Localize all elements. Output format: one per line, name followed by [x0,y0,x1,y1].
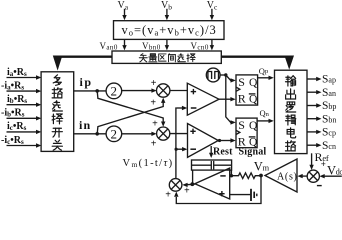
summer R ramp (circle-X) [169,179,182,192]
svg-text:Qp: Qp [259,66,268,76]
wire feedback right vertical [230,170,232,176]
wire Van0 arrow [122,39,126,50]
svg-text:Vcn0: Vcn0 [191,41,209,52]
block U1 neutral-voltage formula box vo=(va+vb+vc)/3 [114,21,225,40]
input Ref label [315,150,329,164]
svg-text:2: 2 [111,84,118,99]
svg-text:Va: Va [118,0,129,11]
wire FF2 Q to output logic [257,119,274,123]
wire ramp riser to comparators [175,108,177,179]
gain block 2x (upper) [106,83,122,99]
input Vb arrow [165,9,169,20]
output Scn [307,140,336,152]
wire -ic·Rs arrow [7,143,42,147]
block U4 output logic box (输出逻辑电路) [275,70,308,153]
summer DC plus sign [321,159,326,169]
svg-text:Van0: Van0 [100,41,118,52]
wire summer N to CMP2 plus input [170,133,188,135]
label Rest Signal [213,147,266,158]
wire summer DC to A(s) [297,174,307,178]
svg-text:Vbn0: Vbn0 [142,41,161,52]
node Qn label [260,108,270,118]
input Va label [118,0,129,11]
input Va arrow [122,9,126,20]
label Vm(1-t/tau) [123,158,174,169]
wire Vcn0 arrow [210,39,214,50]
node Vm junction [259,174,263,178]
output San [307,87,336,99]
wire Ref arrow [309,153,313,170]
node in label [79,118,91,132]
wire ip [74,90,106,92]
wire 2x to summer N [122,132,157,136]
node Vm label [254,159,270,173]
input -ic·Rs label [1,135,24,146]
svg-text:2: 2 [111,127,118,142]
input Vdc label [327,163,342,177]
gain block 2x (lower) [106,126,122,142]
output Sap [307,74,336,86]
node op-amp output junction [190,182,194,186]
node Vbn0 label [142,41,161,52]
wire -ib·Rs arrow [7,116,42,120]
output Scp [307,127,336,139]
wire ramp to CMP2 minus input [176,147,187,151]
output Sbp [307,100,336,112]
svg-text:Q: Q [249,137,258,149]
svg-text:vo=(va+vb+vc)/3: vo=(va+vb+vc)/3 [122,23,217,37]
wire thick bus to output logic [221,56,294,70]
summer N plus sign (vertical input) [152,119,158,130]
svg-text:R: R [238,135,246,149]
oscillator clock symbol [206,68,220,82]
svg-text:S: S [238,75,245,89]
input Vb label [161,0,172,11]
svg-text:+: + [165,190,171,201]
svg-text:Q: Q [249,120,258,132]
wire in [74,133,106,135]
input ia·Rs label [7,67,27,78]
node clock junction [224,73,227,76]
input Vc arrow [210,9,214,20]
svg-text:-ib•Rs: -ib•Rs [1,108,25,119]
svg-text:+: + [151,78,157,89]
flip-flop FF2 (lower SR) [236,118,258,149]
node in junction [95,132,99,136]
svg-text:San: San [322,87,336,99]
input Vc label [207,0,218,11]
svg-text:Sap: Sap [322,74,336,86]
wire op-amp output to summer R [182,183,195,187]
node riser junction for CMP2 minus [175,148,178,151]
node CMP2 output junction [218,139,221,142]
wire Vbn0 arrow [165,39,169,50]
svg-text:ip: ip [80,75,93,89]
svg-text:Q: Q [249,94,258,106]
node Vcn0 label [191,41,209,52]
input ib·Rs label [7,94,27,105]
svg-text:R: R [238,92,246,106]
summer N (circle-X) [157,127,170,140]
svg-text:Vm(1-t/τ): Vm(1-t/τ) [123,158,174,169]
resistor R1 [231,173,261,179]
wire ic·Rs arrow [7,130,42,134]
block U3 multiplexer switch box (多路选择开关) [41,72,74,152]
wire thick bus to multiplexer [53,56,112,71]
wire feedback left vertical [192,170,194,184]
wire Vm down feedback [174,176,261,204]
svg-text:Scp: Scp [322,127,336,139]
node Van0 label [100,41,118,52]
wire clock to FF1 S [226,75,236,83]
summer R plus sign (bottom input) [165,190,171,201]
summer N plus sign (horizontal input) [151,139,157,150]
node ip junction [95,89,99,93]
summer P plus sign (vertical input) [150,97,156,108]
summer DC minus sign [317,185,322,187]
comparator CMP2 (lower) [188,124,219,158]
wire clock vertical to FF2 S [226,75,236,125]
svg-text:Sbp: Sbp [322,100,336,112]
wire FF1 Q to output logic [258,76,274,80]
capacitor C1 reset box [192,160,232,170]
svg-text:+: + [152,119,158,130]
wire reset signal branch [209,146,213,158]
node feedback junction [230,174,233,177]
comparator CMP1 (upper) [187,83,219,115]
wire -ia·Rs arrow [7,89,42,93]
wire cross diagonal ip to summer N [97,91,165,127]
svg-text:-ia•Rs: -ia•Rs [1,80,24,91]
ground (rotated) [251,189,257,201]
wire clock output [220,74,226,76]
summer P (circle-X) [157,84,170,97]
wire CMP2 output to FF2 R [218,138,235,142]
svg-text:S: S [238,118,245,132]
summer R plus sign (right input) [184,185,190,196]
summer P plus sign (horizontal input) [151,78,157,89]
wire 2x to summer P [122,88,157,92]
svg-text:+: + [151,139,157,150]
wire op-amp plus input [230,194,251,196]
wire Vdc arrow [319,174,341,178]
svg-text:A(s): A(s) [277,171,298,182]
input -ib·Rs label [1,108,25,119]
svg-text:+: + [150,97,156,108]
svg-text:Sbn: Sbn [322,113,336,125]
input ic·Rs label [7,121,27,132]
wire op-amp minus input [230,175,232,177]
amplifier A(s) [265,159,298,192]
wire ramp to CMP1 minus input [176,106,187,110]
block U2 vector sector selection box (矢量区间选择) [112,51,221,63]
svg-text:Vm: Vm [254,159,270,173]
svg-text:+: + [321,159,326,169]
wire ib·Rs arrow [7,103,42,107]
wire cross diagonal in to summer P [97,98,165,134]
flip-flop FF1 (upper SR) [236,75,258,106]
svg-text:Q: Q [249,77,258,89]
summer DC (circle-X) [307,170,319,182]
svg-text:Scn: Scn [322,140,336,152]
node ip label [80,75,93,89]
svg-text:in: in [79,118,91,132]
output Sbn [307,113,336,125]
svg-text:+: + [184,185,190,196]
input -ia·Rs label [1,80,24,91]
svg-text:-ic•Rs: -ic•Rs [1,135,24,146]
wire CMP1 output to FF1 R [219,97,236,101]
op-amp integrator (points left) [195,168,230,199]
node Qp label [259,66,268,76]
wire ia·Rs arrow [7,75,42,79]
wire summer P to CMP1 plus input [170,90,187,92]
